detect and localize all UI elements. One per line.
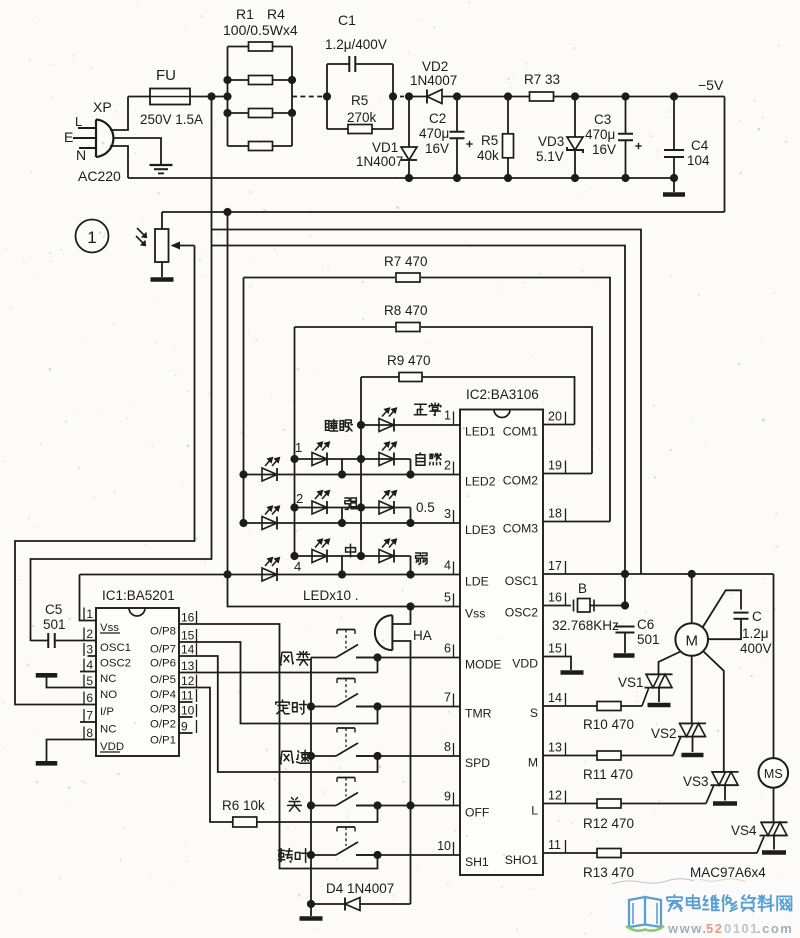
svg-text:FU: FU: [156, 67, 176, 84]
wire: [574, 97, 576, 138]
svg-text:M: M: [685, 633, 698, 650]
wire: [311, 903, 345, 905]
svg-text:LDE: LDE: [465, 575, 489, 589]
svg-text:15: 15: [548, 642, 562, 656]
wire VS1 MT1: [658, 688, 660, 702]
svg-text:9: 9: [181, 720, 188, 734]
svg-text:1: 1: [87, 228, 96, 247]
svg-text:11: 11: [548, 838, 561, 852]
svg-text:O/P2: O/P2: [150, 719, 176, 731]
svg-text:LDE3: LDE3: [465, 523, 496, 537]
wire switch row to IC2: [356, 657, 460, 659]
svg-text:−5V: −5V: [698, 77, 724, 93]
wire: [625, 141, 627, 179]
wire NO to ground: [47, 678, 97, 688]
resistor R12 470: [543, 803, 597, 805]
wire M to VS3: [703, 651, 724, 772]
wire M to VS2: [691, 656, 693, 724]
node C4 top: [670, 92, 678, 100]
svg-text:COM3: COM3: [503, 522, 538, 536]
wire pin1 route to IC1: [80, 575, 97, 621]
wire HA bottom long vertical: [392, 641, 410, 904]
node sleep junction: [357, 421, 365, 429]
ground earth pin: [150, 164, 173, 166]
label sleep 睡眠: [326, 420, 338, 432]
resistor R9 470: [361, 376, 399, 378]
svg-text:250V 1.5A: 250V 1.5A: [140, 112, 203, 127]
wire M top: [691, 574, 693, 623]
label 关: [288, 798, 302, 812]
scan speckle (decorative): [259, 142, 261, 144]
node: [290, 503, 298, 511]
node -5V on LDE row: [223, 570, 231, 578]
node M top: [688, 570, 696, 578]
resistor R3: [228, 112, 249, 114]
svg-text:11: 11: [181, 689, 194, 703]
svg-text:C6: C6: [637, 617, 654, 632]
label 风类: [281, 652, 294, 665]
node: [357, 455, 365, 463]
svg-text:1: 1: [295, 440, 302, 455]
node switch output: [373, 752, 381, 760]
node: [239, 519, 247, 527]
svg-text:1: 1: [444, 409, 451, 423]
svg-text:OSC1: OSC1: [505, 574, 538, 588]
svg-text:17: 17: [548, 559, 562, 573]
diode VD2: [427, 90, 442, 104]
wire bus line 3: [212, 246, 626, 606]
resistor R6 10k: [233, 817, 257, 827]
node: [223, 76, 231, 84]
node rail: [405, 174, 413, 182]
svg-text:470μ: 470μ: [585, 127, 615, 142]
crystal B 32.768KHz: [543, 605, 571, 607]
wire COM3 rail: [243, 278, 245, 524]
buzzer HA: [375, 615, 393, 650]
svg-text:SH1: SH1: [465, 855, 489, 869]
node circled 1: [76, 220, 109, 253]
svg-text:R6 10k: R6 10k: [222, 798, 265, 813]
wire IR output with arrow: [177, 245, 195, 247]
wire: [456, 97, 458, 132]
wire plug N to bottom rail: [110, 146, 128, 178]
faint pencil scribble: [612, 879, 694, 884]
svg-text:16: 16: [548, 591, 562, 605]
node switch rail: [307, 801, 315, 809]
wire -5V distribution line: [162, 211, 725, 213]
ground VS2: [682, 753, 704, 758]
svg-text:R8 470: R8 470: [384, 303, 428, 318]
node rail: [504, 174, 512, 182]
svg-text:400V: 400V: [740, 641, 772, 656]
svg-text:O/P5: O/P5: [150, 674, 176, 686]
svg-text:2: 2: [86, 627, 93, 641]
svg-text:VDD: VDD: [512, 657, 538, 671]
svg-text:4: 4: [444, 559, 451, 573]
svg-text:1.2μ/400V: 1.2μ/400V: [325, 37, 387, 52]
wire M to VS1: [659, 652, 681, 675]
wire cathode drop: [341, 556, 343, 575]
label mid 中: [346, 544, 356, 556]
label 定时: [276, 700, 289, 714]
wire cathode drop: [410, 508, 412, 524]
svg-text:M: M: [528, 756, 538, 770]
wire COM3 to R7: [543, 521, 610, 523]
LED indicator row3 col1: [262, 517, 277, 530]
label 转叶: [278, 849, 292, 863]
svg-text:8: 8: [444, 740, 451, 754]
wire switch row to IC2: [356, 755, 460, 757]
svg-text:6: 6: [444, 642, 451, 656]
wire fuse left: [128, 96, 150, 98]
svg-text:14: 14: [181, 643, 195, 657]
resistor R10 470: [543, 705, 597, 707]
svg-text:VS1: VS1: [618, 675, 644, 690]
svg-text:6: 6: [86, 691, 93, 705]
IC U-IC1 BA5201 body: [96, 608, 179, 756]
watermark book icon: [629, 897, 661, 927]
wire: [673, 178, 675, 192]
svg-text:R10 470: R10 470: [583, 717, 634, 732]
svg-text:OSC1: OSC1: [100, 642, 131, 654]
node switch output: [373, 851, 381, 859]
label natural 自然: [416, 453, 425, 465]
svg-text:IC2:BA3106: IC2:BA3106: [466, 387, 539, 402]
node: [406, 570, 414, 578]
svg-text:AC220: AC220: [78, 168, 121, 184]
svg-text:COM1: COM1: [503, 425, 538, 439]
wire OSC1 long line: [543, 573, 774, 575]
wire fuse to node: [190, 96, 228, 98]
node: [357, 552, 365, 560]
wire MS bottom: [773, 788, 775, 823]
svg-text:16V: 16V: [425, 141, 449, 156]
wire sub-row 4h/weak: [295, 555, 411, 557]
svg-text:18: 18: [548, 507, 562, 521]
wire -5V to Vss: [228, 575, 461, 607]
wire: [508, 96, 530, 98]
motor M: [675, 623, 708, 656]
resistor R11 470: [543, 755, 597, 757]
resistor R1: [228, 46, 249, 48]
svg-text:NC: NC: [100, 673, 116, 685]
resistor R8 470: [295, 326, 396, 328]
svg-text:MODE: MODE: [465, 658, 502, 672]
svg-text:SPD: SPD: [465, 756, 490, 770]
wire LDE row / Vss rail: [80, 574, 461, 576]
node: [288, 76, 296, 84]
svg-text:VS3: VS3: [683, 774, 709, 789]
svg-text:VDD: VDD: [100, 741, 124, 753]
svg-text:470μ: 470μ: [419, 126, 449, 141]
node: [406, 470, 414, 478]
svg-text:TMR: TMR: [465, 707, 492, 721]
wire: [507, 158, 509, 178]
svg-text:40k: 40k: [477, 148, 499, 163]
resistor R7 470: [244, 277, 396, 279]
svg-text:R11 470: R11 470: [583, 767, 633, 782]
node: [338, 470, 346, 478]
svg-text:MAC97A6x4: MAC97A6x4: [690, 865, 766, 880]
node rail: [621, 174, 629, 182]
svg-text:D4 1N4007: D4 1N4007: [326, 881, 394, 896]
wire sub-row 2h/0.5: [295, 507, 411, 509]
resistor R4: [228, 145, 249, 147]
wire: [625, 97, 627, 134]
svg-text:LED2: LED2: [465, 475, 496, 489]
wire VDD to ground: [543, 657, 571, 671]
wire gate VS4: [757, 837, 764, 854]
svg-text:15: 15: [181, 629, 195, 643]
op-amp U-IC2 BA3106 body: [460, 410, 543, 876]
node: [621, 601, 629, 609]
capacitor C3: [618, 133, 633, 135]
node: [338, 570, 346, 578]
watermark site name: [667, 895, 682, 911]
LED indicator row4 col1: [262, 568, 277, 581]
wire LED2 row: [244, 474, 461, 476]
svg-text:Vss: Vss: [465, 607, 485, 621]
wire E prong: [73, 137, 96, 139]
wire gate VS1: [642, 689, 649, 707]
node rail: [571, 174, 579, 182]
node switch rail: [307, 752, 315, 760]
switch timer 定时: [311, 706, 336, 708]
svg-text:13: 13: [181, 659, 195, 673]
wire IR to IC1 I/P: [15, 246, 195, 705]
svg-text:E: E: [64, 129, 73, 145]
svg-text:1N4007: 1N4007: [410, 73, 457, 88]
svg-text:19: 19: [548, 459, 562, 473]
LED weak: [379, 550, 394, 563]
wire cathode drop: [341, 508, 343, 524]
LED 0.5h: [379, 501, 394, 514]
svg-text:R1: R1: [236, 6, 254, 22]
svg-text:4: 4: [294, 559, 301, 574]
svg-text:VD3: VD3: [538, 134, 564, 149]
svg-text:R5: R5: [481, 133, 498, 148]
wire L prong: [78, 127, 96, 129]
ground NO pin5: [36, 673, 58, 678]
ground VDD pin15: [561, 670, 584, 675]
svg-text:NO: NO: [100, 689, 117, 701]
svg-text:C2: C2: [429, 111, 446, 126]
triac VS3: [712, 771, 739, 773]
wire: [507, 97, 509, 134]
node C2 top: [453, 92, 461, 100]
switch swing 转叶: [311, 854, 336, 856]
svg-text:IC1:BA5201: IC1:BA5201: [102, 588, 175, 603]
svg-text:VS2: VS2: [651, 726, 677, 741]
wire COM2 to R8: [543, 473, 592, 475]
wire -5V vertical: [227, 212, 229, 575]
resistor R5 40k: [503, 134, 514, 158]
svg-text:OSC2: OSC2: [100, 658, 131, 670]
node: [239, 470, 247, 478]
wire VDD to ground: [47, 740, 97, 762]
svg-text:7: 7: [86, 709, 93, 723]
wire C bottom to M: [708, 619, 741, 639]
wire O/P4 to R6: [179, 688, 233, 823]
svg-text:XP: XP: [93, 99, 112, 115]
wire -5V right border: [724, 97, 726, 213]
wire COM2 rail: [294, 327, 296, 556]
svg-text:O/P6: O/P6: [150, 658, 176, 670]
svg-text:O/P7: O/P7: [150, 644, 176, 656]
fuse FU: [150, 89, 190, 105]
node C4 bottom: [670, 174, 678, 182]
ground C6: [614, 653, 635, 658]
wire: [408, 160, 410, 178]
wire: [456, 139, 458, 179]
wire COM1 to R9: [543, 424, 575, 426]
wire O/P7 to timer switch: [179, 642, 378, 724]
node switch rail: [307, 851, 315, 859]
svg-text:HA: HA: [413, 628, 432, 643]
svg-text:14: 14: [548, 691, 562, 705]
ground VS3: [713, 801, 737, 806]
wire: [673, 157, 675, 178]
svg-text:8: 8: [86, 726, 93, 740]
node: [338, 519, 346, 527]
zener diode VD3 5.1V: [567, 137, 583, 150]
svg-text:13: 13: [548, 741, 562, 755]
svg-text:R4: R4: [267, 6, 285, 22]
node: [223, 109, 231, 117]
capacitor C1: [327, 63, 349, 65]
label strong 强: [345, 498, 357, 509]
svg-text:MS: MS: [764, 767, 783, 781]
wire gate VS2: [673, 738, 681, 756]
resistor R2: [228, 79, 249, 81]
IC1 pin10 O/P2 stub: [179, 716, 193, 718]
wire: [442, 96, 508, 98]
wire sub-row 1h/natural: [295, 458, 411, 460]
svg-text:C5: C5: [45, 602, 62, 617]
wire: [409, 96, 427, 98]
svg-text:3: 3: [86, 643, 93, 657]
wire: [408, 97, 410, 148]
svg-text:NC: NC: [100, 724, 116, 736]
label weak 弱: [416, 553, 427, 564]
wire bottom AC rail: [128, 177, 674, 179]
svg-text:www.: www.: [667, 921, 707, 936]
svg-text:O/P4: O/P4: [150, 689, 176, 701]
svg-text:R7 470: R7 470: [384, 254, 428, 269]
wire R6 to off switch: [257, 806, 378, 823]
wire switch row to IC2: [356, 706, 460, 708]
svg-text:B: B: [578, 581, 587, 596]
svg-text:R13 470: R13 470: [583, 865, 634, 880]
svg-text:COM2: COM2: [503, 474, 538, 488]
node Vss line: [406, 602, 414, 610]
wire: [574, 150, 576, 178]
svg-text:0.5: 0.5: [416, 500, 435, 515]
wire COM1 rail: [360, 377, 362, 556]
svg-text:9: 9: [444, 790, 451, 804]
ground DC common: [663, 192, 685, 197]
wire cathode drop: [410, 459, 412, 475]
svg-text:R9 470: R9 470: [387, 353, 431, 368]
ground VS4: [762, 850, 786, 855]
ground key common: [300, 916, 323, 921]
wire O/P5 to mode switch: [179, 672, 378, 674]
node: [290, 455, 298, 463]
capacitor C 1.2u 400V: [734, 612, 749, 614]
IC1 pin9 O/P1 stub: [179, 732, 193, 734]
svg-text:SHO1: SHO1: [505, 853, 538, 867]
svg-text:.com: .com: [757, 921, 793, 936]
svg-text:4: 4: [86, 658, 93, 672]
node VD1 top: [405, 92, 413, 100]
svg-text:1.2μ: 1.2μ: [742, 626, 769, 641]
node switch rail: [307, 702, 315, 710]
LED timer 1h: [312, 453, 327, 466]
svg-text:OSC2: OSC2: [505, 606, 538, 620]
wire LDE3 row: [244, 522, 461, 524]
svg-text:C1: C1: [338, 12, 356, 28]
svg-text:104: 104: [687, 153, 710, 168]
svg-text:N: N: [76, 147, 86, 163]
wire MS top: [773, 574, 775, 758]
node: [406, 519, 414, 527]
svg-text:16: 16: [181, 611, 195, 625]
node -5V tap: [223, 208, 231, 216]
LED strong: [312, 501, 327, 514]
svg-text:1N4007: 1N4007: [356, 154, 403, 169]
svg-text:C3: C3: [594, 112, 611, 127]
svg-text:LEDx10 .: LEDx10 .: [303, 588, 359, 603]
LED indicator row2 col1: [262, 468, 277, 481]
diode VD1: [401, 147, 417, 160]
node D4 anode-gnd: [307, 900, 315, 908]
node: [323, 92, 331, 100]
svg-text:R12 470: R12 470: [583, 816, 634, 831]
svg-text:10: 10: [437, 839, 451, 853]
wire switch rail down: [310, 855, 312, 904]
svg-text:VS4: VS4: [731, 823, 757, 838]
capacitor C6 501: [616, 626, 635, 628]
wire: [673, 97, 675, 150]
resistor R5 270k: [327, 128, 348, 130]
svg-text:R5: R5: [351, 93, 368, 108]
svg-text:O/P8: O/P8: [150, 626, 176, 638]
LED mid: [312, 550, 327, 563]
svg-text:12: 12: [548, 789, 562, 803]
svg-text:VD2: VD2: [422, 59, 448, 74]
svg-text:0101: 0101: [724, 921, 759, 936]
node: [621, 570, 629, 578]
svg-text:O/P1: O/P1: [150, 735, 176, 747]
ground IR receiver: [151, 277, 174, 282]
svg-text:2: 2: [444, 459, 451, 473]
svg-text:7: 7: [444, 691, 451, 705]
wire cathode drop: [410, 556, 412, 575]
node C3 top: [621, 92, 629, 100]
wire: [360, 903, 411, 905]
wire switch row to IC2: [356, 854, 460, 856]
svg-text:VD1: VD1: [372, 140, 398, 155]
IR receiver: [161, 212, 163, 229]
wire O/P6 to speed switch: [179, 656, 378, 772]
wire VS4 MT1: [773, 836, 775, 850]
capacitor C4 104: [664, 149, 684, 151]
svg-text:20: 20: [548, 410, 562, 424]
svg-text:L: L: [75, 114, 82, 129]
IC1 pin7 stub: [80, 721, 96, 723]
wire: [310, 904, 312, 916]
svg-text:C: C: [752, 609, 762, 624]
